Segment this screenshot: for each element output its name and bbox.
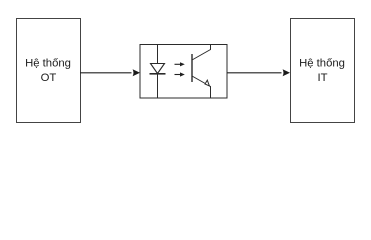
arrowhead A1 (into optocoupler input) (133, 69, 140, 76)
phototransistor Q1 (192, 45, 211, 99)
svg-text:IT: IT (317, 72, 327, 84)
svg-text:OT: OT (41, 72, 57, 84)
emitter lead (192, 76, 211, 98)
light arrow 1 (175, 62, 185, 66)
light arrow 2 (175, 72, 185, 76)
block: He thong OT (left system box) (17, 19, 81, 123)
wire: LED cathode lead (diode to bottom edge) (157, 74, 159, 98)
block: He thong IT (right system box) (291, 19, 355, 123)
svg-text:Hệ thống: Hệ thống (299, 58, 345, 70)
collector lead (192, 45, 211, 61)
optocoupler U1 package box (140, 45, 227, 99)
wire W2: optocoupler to IT box (227, 72, 282, 74)
LED D1 (emitter diode, cathode down) (150, 64, 166, 74)
svg-text:Hệ thống: Hệ thống (25, 58, 71, 70)
wire W1: OT box to optocoupler (80, 72, 132, 74)
base bar (191, 54, 193, 82)
emitter arrowhead (open) (205, 80, 209, 86)
arrowhead A2 (into IT box) (283, 69, 290, 76)
wire: LED anode lead (top edge to diode) (157, 45, 159, 64)
